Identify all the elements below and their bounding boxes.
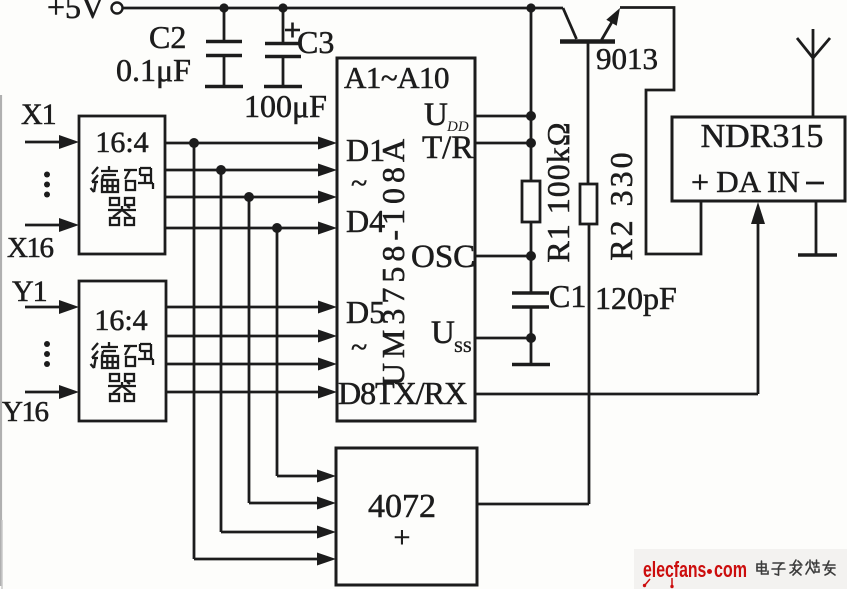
svg-text:DA IN: DA IN (716, 164, 800, 199)
svg-text:T/R: T/R (422, 130, 473, 166)
svg-text:~: ~ (351, 167, 367, 200)
svg-text:+: + (394, 521, 411, 554)
svg-text:4072: 4072 (368, 488, 436, 525)
svg-text:A1~A10: A1~A10 (344, 60, 449, 95)
svg-text:com: com (714, 559, 747, 583)
svg-text:U: U (431, 315, 455, 351)
svg-text:elecfans: elecfans (643, 559, 706, 583)
svg-text:Y1: Y1 (12, 275, 47, 308)
svg-text:100μF: 100μF (244, 88, 327, 124)
svg-text:SS: SS (454, 339, 472, 356)
svg-text:+: + (691, 164, 709, 200)
svg-text:NDR315: NDR315 (701, 118, 824, 155)
svg-text:~: ~ (351, 331, 367, 364)
svg-text:OSC: OSC (411, 239, 475, 275)
svg-text:UM3758-108A: UM3758-108A (375, 134, 411, 386)
svg-text:9013: 9013 (596, 41, 658, 76)
svg-text:16:4: 16:4 (94, 304, 147, 337)
svg-text:R2 330: R2 330 (603, 149, 639, 260)
svg-text:Y16: Y16 (2, 396, 48, 428)
svg-text:X1: X1 (21, 98, 56, 131)
svg-text:C1: C1 (549, 278, 586, 314)
svg-text:X16: X16 (7, 232, 53, 264)
svg-text:R1 100kΩ: R1 100kΩ (540, 121, 576, 262)
svg-text:+5V: +5V (47, 0, 104, 25)
svg-text:U: U (424, 97, 448, 133)
svg-text:C2: C2 (149, 19, 186, 55)
svg-text:0.1μF: 0.1μF (116, 52, 191, 88)
svg-text:120pF: 120pF (595, 280, 677, 316)
svg-text:16:4: 16:4 (95, 126, 148, 159)
svg-text:C3: C3 (297, 24, 334, 60)
